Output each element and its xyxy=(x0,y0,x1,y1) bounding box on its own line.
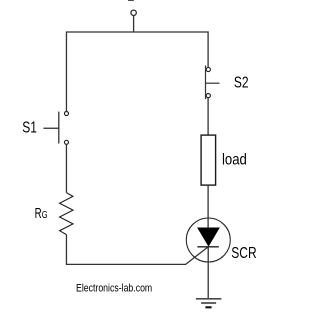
SCR cathode bar xyxy=(197,246,218,248)
wire RG to gate net (bottom horizontal + diagonal to SCR gate) xyxy=(66,235,208,265)
svg-text:SCR: SCR xyxy=(231,243,256,261)
wire S2 to load xyxy=(207,98,209,135)
resistor RG xyxy=(60,193,73,235)
svg-text:G: G xyxy=(42,209,48,220)
label RG xyxy=(35,205,48,221)
ground xyxy=(196,299,222,308)
label load xyxy=(222,152,247,169)
label S1 xyxy=(22,118,37,136)
supply terminal xyxy=(131,10,136,32)
supply label remnant xyxy=(128,0,134,1)
wire S1 to RG xyxy=(65,145,67,193)
SCR circle xyxy=(186,218,230,262)
switch S2 xyxy=(206,66,220,100)
switch S1 xyxy=(43,112,68,145)
svg-text:load: load xyxy=(222,152,247,169)
svg-text:S1: S1 xyxy=(22,118,37,136)
SCR triangle (anode to cathode) xyxy=(198,228,219,246)
svg-text:R: R xyxy=(35,205,42,221)
watermark Electronics-lab.com xyxy=(76,283,152,295)
wire load to SCR triangle xyxy=(207,185,209,228)
label S2 xyxy=(234,73,249,91)
wire cathode to ground xyxy=(207,247,209,298)
svg-text:Electronics-lab.com: Electronics-lab.com xyxy=(76,283,152,295)
wire top rail: left vertical, top horizontal, right vertical xyxy=(66,32,208,111)
label SCR xyxy=(231,243,256,261)
load resistor (rect) xyxy=(201,135,216,185)
svg-text:S2: S2 xyxy=(234,73,249,91)
